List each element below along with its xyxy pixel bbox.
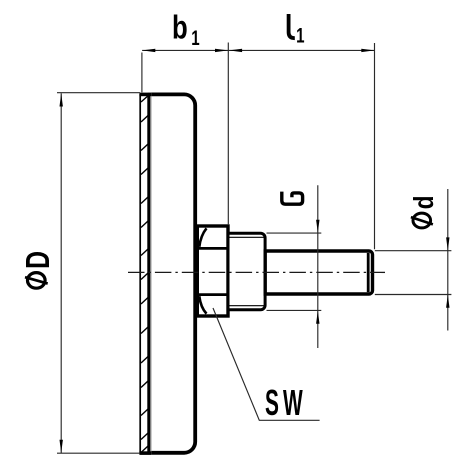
svg-text:D: D — [21, 251, 57, 269]
svg-text:1: 1 — [296, 23, 304, 47]
svg-text:S: S — [265, 383, 279, 423]
svg-text:W: W — [283, 383, 303, 423]
svg-text:d: d — [409, 196, 440, 210]
svg-text:b: b — [172, 10, 188, 47]
svg-text:1: 1 — [191, 26, 199, 50]
